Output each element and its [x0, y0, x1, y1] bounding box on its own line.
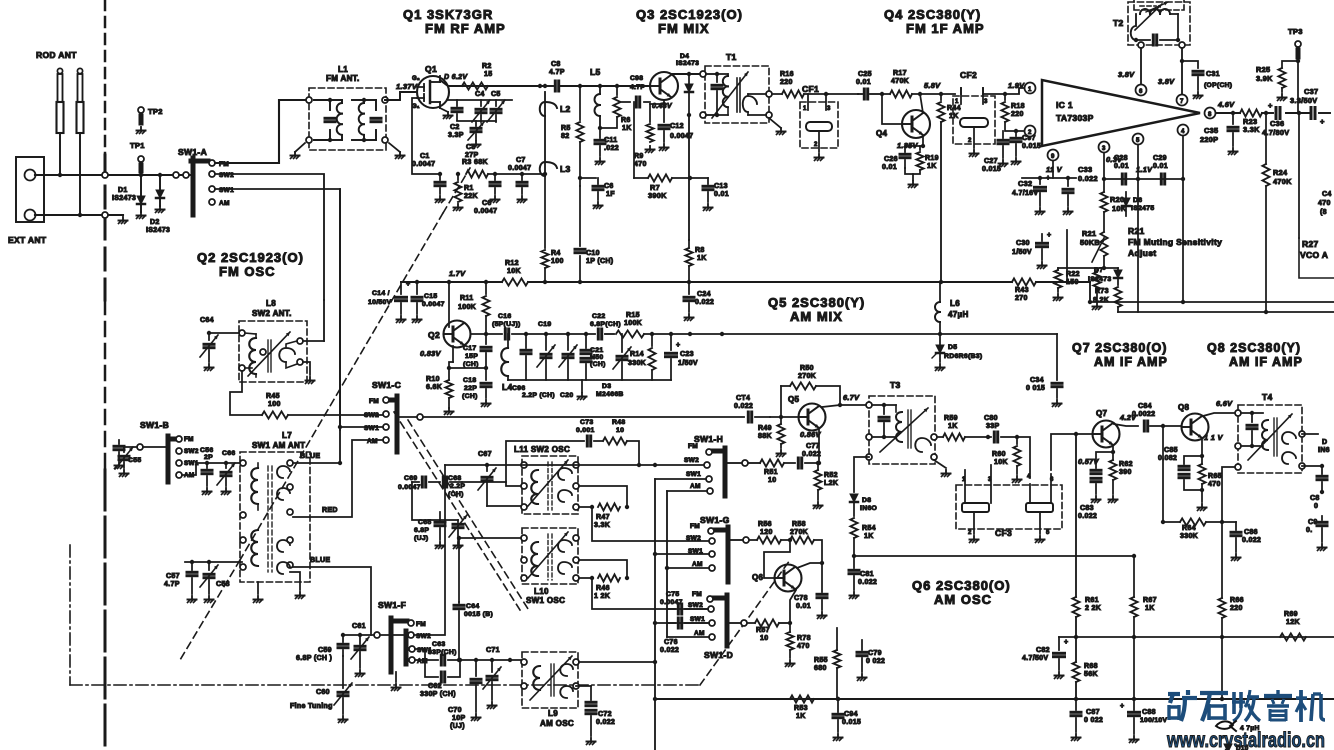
- resistor R66 220: [1218, 522, 1225, 699]
- node C59 junction: [341, 633, 362, 637]
- capacitor C14 10/50V: [396, 281, 411, 323]
- resistor R7 390K: [634, 174, 692, 181]
- svg-text:Q5 2SC380(Y): Q5 2SC380(Y): [768, 295, 865, 310]
- label C62 330P (CH): [420, 683, 456, 698]
- pin 3: [1099, 142, 1110, 153]
- resistor R46 1.2K: [579, 560, 629, 582]
- label ROD ANT: [36, 50, 77, 60]
- capacitor C59 6.8P(CH): [338, 635, 369, 677]
- label C73 0.001: [576, 419, 595, 434]
- label R24 470K: [1273, 168, 1292, 186]
- svg-text:Q3 2SC1923(O): Q3 2SC1923(O): [636, 7, 743, 22]
- svg-text:D10: D10: [1236, 745, 1249, 750]
- label C76 0.022: [660, 639, 679, 654]
- label 1.9V: [1008, 81, 1025, 90]
- svg-text:IC 1: IC 1: [1056, 100, 1073, 110]
- label C65 6.8P(UJ): [414, 519, 431, 542]
- svg-text:C75: C75: [666, 591, 679, 598]
- label SW1-A: [178, 147, 207, 157]
- svg-text:1.1V: 1.1V: [1136, 165, 1153, 174]
- svg-text:8.2K: 8.2K: [1093, 297, 1110, 304]
- resistor R68 56K: [1072, 662, 1079, 682]
- capacitor right edge C89: [1317, 466, 1327, 494]
- svg-text:R8: R8: [695, 247, 705, 254]
- label CF3: [995, 528, 1012, 538]
- connector SW1-D out: [741, 620, 747, 626]
- node CF2 out: [1003, 92, 1007, 96]
- capacitor C20 trimmer: [559, 334, 577, 380]
- wire long vertical x655: [653, 479, 657, 750]
- capacitor C79 0.022: [857, 640, 867, 681]
- svg-text:L7: L7: [282, 431, 292, 440]
- svg-text:R50: R50: [800, 365, 814, 372]
- svg-text:T2: T2: [1113, 18, 1124, 28]
- label C14 10/50V: [368, 290, 392, 306]
- wire Q7 collector: [1114, 424, 1138, 426]
- node x655 sw1d: [653, 621, 657, 625]
- diode D8 IN60: [850, 457, 869, 516]
- label R66 220: [1230, 597, 1244, 612]
- resistor R14 330K: [648, 334, 655, 380]
- svg-text:100K: 100K: [458, 304, 477, 311]
- capacitor C30 1/50V: [1037, 232, 1052, 269]
- svg-text:0.83V: 0.83V: [420, 349, 441, 358]
- wire L7 RED mid: [293, 440, 383, 517]
- svg-text:FM: FM: [688, 443, 698, 450]
- capacitor C6 1F: [580, 178, 603, 209]
- label R20 10K: [1110, 195, 1127, 213]
- svg-text:Q7 2SC380(O): Q7 2SC380(O): [1072, 341, 1167, 355]
- svg-text:C78: C78: [794, 595, 808, 602]
- label SW1-G SW2: [686, 535, 701, 542]
- svg-text:T4: T4: [1262, 392, 1273, 402]
- diode D6 IS2475: [1122, 192, 1130, 216]
- node x667 sw1g: [665, 566, 669, 570]
- label R59 1K: [944, 415, 958, 430]
- svg-text:R54: R54: [862, 525, 876, 532]
- svg-text:3.3P: 3.3P: [448, 132, 464, 139]
- label C71: [486, 647, 500, 654]
- label C17 15P (CH): [463, 345, 479, 368]
- wire Q2 collector: [471, 332, 488, 336]
- label R67 1K: [1143, 597, 1157, 612]
- capacitor C26: [900, 137, 925, 168]
- pin 5: [1133, 134, 1144, 145]
- wire L2-L3 column: [544, 92, 546, 174]
- label C2 3.3P: [448, 124, 464, 139]
- svg-text:1.7V: 1.7V: [449, 269, 466, 278]
- label R60 10K: [992, 451, 1008, 466]
- label SW1-B: [140, 420, 169, 430]
- svg-text:33P: 33P: [986, 423, 999, 430]
- transistor Q4 2SC380: [902, 110, 930, 138]
- antenna rod 1: [57, 68, 64, 175]
- resistor R1 22K: [454, 174, 463, 211]
- svg-text:R78: R78: [797, 635, 811, 642]
- svg-text:R57: R57: [756, 627, 770, 634]
- svg-text:10: 10: [768, 477, 776, 484]
- label C87 0.022: [1084, 709, 1103, 724]
- capacitor C10 1P(CH): [575, 249, 585, 252]
- label D1 IS2473: [112, 187, 136, 202]
- svg-text:100/10V: 100/10V: [1140, 717, 1167, 724]
- label 4.2V: [1119, 413, 1137, 422]
- capacitor C86 0.022: [1222, 522, 1241, 561]
- svg-text:50KB: 50KB: [1080, 238, 1100, 247]
- switch SW1-A: [191, 158, 215, 215]
- capacitor C24 0.022: [684, 282, 694, 321]
- svg-text:4.7/50V: 4.7/50V: [1022, 655, 1048, 662]
- label T3: [890, 380, 901, 390]
- wire ext-ant lower: [35, 214, 123, 216]
- svg-text:220: 220: [780, 79, 793, 86]
- svg-text:10: 10: [616, 427, 624, 434]
- svg-text:SW1: SW1: [686, 471, 701, 478]
- capacitor C69 C68 pair: [412, 477, 462, 487]
- ground L7 bottom right: [290, 572, 305, 599]
- svg-text:C11: C11: [604, 137, 617, 144]
- label TP1: [130, 141, 145, 150]
- svg-text:FM: FM: [692, 591, 702, 598]
- label R9 470: [634, 153, 647, 168]
- transformer T3: [866, 396, 937, 464]
- svg-text:R3: R3: [462, 159, 472, 166]
- label Q6 header: [912, 578, 1011, 607]
- svg-text:0.01: 0.01: [796, 603, 811, 610]
- transformer L7: [240, 452, 310, 582]
- wire tank bus: [448, 99, 512, 101]
- svg-text:C12: C12: [670, 123, 684, 130]
- svg-text:IN6O: IN6O: [860, 505, 878, 512]
- label R3 68K: [462, 159, 488, 166]
- label SW1-H SW2: [684, 457, 699, 464]
- wire SW1-B bar in: [143, 446, 166, 448]
- transformer L8: [239, 321, 307, 382]
- wire Q3 collector top: [671, 73, 703, 75]
- svg-text:VCO A: VCO A: [1300, 250, 1328, 260]
- svg-text:G₁: G₁: [412, 104, 420, 110]
- svg-text:C19: C19: [538, 321, 551, 328]
- label R65 470: [1208, 473, 1222, 488]
- svg-text:1P (CH): 1P (CH): [586, 258, 613, 265]
- svg-text:C59: C59: [318, 647, 332, 654]
- svg-text:Q1: Q1: [425, 64, 437, 74]
- label C57 4.7P: [164, 573, 180, 588]
- wire 1.7V bus b: [528, 281, 1012, 283]
- wire R47 to SW1-G: [592, 507, 709, 541]
- label C19: [538, 321, 551, 328]
- capacitor C37 3.3/50V: [1311, 108, 1325, 127]
- wire Q8 collector: [1203, 413, 1235, 416]
- svg-text:R16: R16: [780, 71, 794, 78]
- label C78 0.01: [794, 595, 811, 610]
- svg-text:FM ANT.: FM ANT.: [326, 74, 360, 83]
- capacitor C8: [545, 81, 559, 91]
- svg-text:C13: C13: [714, 183, 728, 190]
- svg-text:0.022: 0.022: [1242, 537, 1261, 544]
- connector SW1-B left: [137, 444, 143, 450]
- wire bus y302: [1090, 301, 1334, 303]
- label G1: [412, 104, 420, 110]
- capacitor C5 trimmer: [487, 100, 505, 122]
- label L2: [560, 104, 571, 114]
- label R17 470K: [891, 70, 910, 85]
- wire SW2 contact right: [414, 465, 445, 635]
- label C94 0.015: [842, 711, 861, 726]
- svg-text:1K: 1K: [949, 113, 959, 120]
- wire bottom bus y699: [655, 698, 1334, 700]
- svg-text:L2: L2: [560, 104, 571, 114]
- label C16 (5P(UJ)): [492, 313, 521, 328]
- svg-text:T1: T1: [726, 52, 737, 62]
- resistor R78 470: [786, 623, 795, 667]
- svg-text:1: 1: [1028, 87, 1032, 93]
- svg-text:C2: C2: [450, 124, 460, 131]
- label C36 4.7/80V: [1262, 119, 1289, 137]
- label D2 IS2473: [146, 219, 170, 234]
- svg-text:C84: C84: [1138, 403, 1152, 410]
- svg-text:SW1: SW1: [219, 187, 234, 194]
- label SW1-B SW1: [184, 460, 199, 467]
- capacitor C1: [435, 174, 445, 203]
- capacitor C7: [517, 174, 527, 203]
- label C1 0.0047: [412, 153, 435, 168]
- svg-text:C29: C29: [1153, 155, 1167, 162]
- label C64: [200, 317, 214, 324]
- label C4: [475, 91, 485, 98]
- label D4 IS2473: [676, 53, 699, 67]
- node R57 out: [788, 621, 792, 625]
- label 1.7V: [449, 269, 466, 278]
- svg-text:C23: C23: [680, 351, 694, 358]
- svg-text:0.022: 0.022: [858, 579, 877, 586]
- wire x1067 up: [1066, 230, 1068, 282]
- svg-text:+: +: [1120, 703, 1124, 710]
- node Q5 coll dot: [838, 403, 842, 407]
- wire T4 to R64 node: [1222, 467, 1238, 522]
- svg-text:R67: R67: [1143, 597, 1157, 604]
- resistor R61 2.2K: [1072, 597, 1079, 617]
- svg-text:470: 470: [1318, 200, 1331, 207]
- svg-text:3.3/50V: 3.3/50V: [1290, 96, 1317, 105]
- wire Q7 emitter: [1112, 445, 1114, 452]
- node C36 junction: [1264, 111, 1268, 115]
- label C8 4.7P: [549, 61, 565, 76]
- svg-text:0.0047: 0.0047: [398, 484, 421, 491]
- label C80 33P: [984, 415, 999, 430]
- wire AM row to L9: [460, 659, 525, 661]
- label CT4 0.022: [734, 395, 753, 410]
- label SW1-G FM: [690, 523, 700, 530]
- capacitor C15 0.0047: [412, 282, 422, 323]
- wire R21 to D7: [1104, 267, 1118, 269]
- svg-text:IS2473: IS2473: [112, 195, 136, 202]
- label C64 0015(B): [464, 603, 493, 618]
- capacitor C17 15P(CH): [481, 334, 491, 370]
- svg-text:L8: L8: [266, 299, 276, 308]
- wire L7 BLUE top: [293, 462, 340, 464]
- resistor R24 470K: [1262, 113, 1269, 314]
- label C77 0.022: [802, 443, 821, 458]
- label C79 0.022: [866, 650, 885, 665]
- transformer T1: [700, 66, 772, 123]
- svg-text:Q5: Q5: [788, 395, 800, 404]
- svg-text:4: 4: [1027, 474, 1031, 480]
- label C89: [1310, 495, 1320, 510]
- capacitor C67 trimmer: [478, 465, 496, 506]
- capacitor C87 0.022: [1071, 699, 1081, 741]
- svg-text:FM 1F AMP: FM 1F AMP: [906, 21, 985, 36]
- svg-text:C9: C9: [1308, 519, 1318, 526]
- svg-text:1K: 1K: [1145, 605, 1155, 612]
- transformer L1: [306, 88, 388, 150]
- svg-text:C30: C30: [1016, 240, 1030, 247]
- label R50 270K: [798, 365, 817, 380]
- svg-text:6.8P: 6.8P: [414, 527, 429, 534]
- wire SW1-H AM left: [667, 490, 707, 492]
- transistor Q6 2SC380: [775, 565, 802, 592]
- wire L8 right top: [303, 340, 324, 342]
- svg-text:68K: 68K: [474, 159, 488, 166]
- wire dashed diagonal shield right: [394, 412, 790, 685]
- switch SW1-H: [704, 448, 725, 496]
- pin T2 right: [1179, 42, 1185, 48]
- wire AM mix bus b: [605, 333, 614, 335]
- label SW1-D: [704, 650, 733, 660]
- svg-text:C83: C83: [1080, 505, 1094, 512]
- capacitor C19 trimmer: [537, 334, 555, 380]
- node rod2 junction: [78, 213, 82, 217]
- svg-text:(CH): (CH): [462, 393, 478, 400]
- svg-text:C16: C16: [498, 313, 511, 320]
- label R21 FM Muting: [1128, 226, 1222, 258]
- svg-text:SW1-B: SW1-B: [140, 420, 169, 430]
- resistor R51 10: [760, 459, 784, 466]
- capacitor right C90: [1317, 516, 1327, 551]
- wire SW1-G out: [731, 539, 742, 541]
- label C20: [560, 392, 573, 399]
- svg-text:R58: R58: [792, 521, 806, 528]
- wire CF2 pins: [961, 88, 1005, 94]
- svg-text:6: 6: [1139, 89, 1143, 95]
- svg-text:R68: R68: [1084, 663, 1098, 670]
- label C61: [352, 623, 366, 630]
- capacitor CT4 0.022: [744, 412, 770, 422]
- svg-text:AM IF AMP: AM IF AMP: [1229, 355, 1303, 369]
- svg-text:C7: C7: [516, 157, 526, 164]
- resistor R54 1K: [850, 518, 857, 558]
- label 0.57V: [1078, 457, 1099, 466]
- connector SW1-C out: [417, 414, 423, 420]
- svg-text:+: +: [676, 342, 680, 349]
- wire Q6 collector: [797, 563, 822, 568]
- capacitor C4 trimmer: [472, 100, 490, 122]
- svg-text:0.022: 0.022: [695, 299, 714, 306]
- svg-text:C6: C6: [482, 200, 492, 207]
- svg-text:R43: R43: [1015, 287, 1029, 294]
- label R73 8.2K: [1093, 288, 1110, 304]
- capacitor C23 1/50V: [666, 334, 681, 380]
- capacitor C31: [1182, 61, 1203, 99]
- label C15 0.0047: [422, 293, 445, 308]
- capacitor C73 0.001: [587, 436, 590, 446]
- node C57 dots: [190, 560, 211, 564]
- label C13 0.01: [714, 183, 729, 198]
- svg-text:0 015: 0 015: [1026, 385, 1045, 392]
- svg-text:R25: R25: [1256, 65, 1270, 74]
- svg-text:C36: C36: [1270, 119, 1284, 128]
- wire pin5 down: [1137, 145, 1139, 312]
- node right edge: [1320, 464, 1324, 468]
- svg-text:C94: C94: [844, 711, 858, 718]
- node C7 junction: [520, 172, 524, 176]
- svg-text:C15: C15: [424, 293, 437, 300]
- label Q8 header: [1207, 341, 1303, 369]
- svg-text:3.3K: 3.3K: [1243, 125, 1260, 134]
- svg-text:0.0022: 0.0022: [1132, 411, 1155, 418]
- svg-text:3.3K: 3.3K: [594, 522, 611, 529]
- diode D5 zener: [932, 334, 948, 371]
- label R12 10K: [505, 260, 521, 275]
- svg-text:C56: C56: [200, 447, 213, 454]
- resistor R4 100: [541, 172, 548, 282]
- label D 6.2V: [444, 74, 468, 81]
- svg-text:+: +: [1064, 639, 1068, 646]
- node Q5 emitter join: [817, 461, 821, 465]
- pin T2 left: [1138, 42, 1144, 48]
- svg-text:2.2P (CH): 2.2P (CH): [522, 392, 555, 399]
- wire L10 feed: [457, 536, 521, 602]
- label C25 0.01: [856, 71, 872, 86]
- EXT ANT terminal box: [16, 157, 44, 222]
- svg-text:R60: R60: [992, 451, 1006, 458]
- label C69 0.0047: [398, 475, 421, 491]
- svg-text:C66: C66: [222, 450, 235, 457]
- svg-text:C18: C18: [463, 377, 476, 384]
- svg-text:88K: 88K: [758, 433, 772, 440]
- label R45 100: [266, 393, 281, 408]
- label R27 VCO: [1300, 239, 1328, 260]
- label R21 50KB: [1080, 229, 1100, 247]
- svg-text:D1: D1: [118, 187, 128, 194]
- svg-text:Fine Tuning: Fine Tuning: [290, 703, 333, 710]
- svg-text:L2K: L2K: [824, 480, 839, 487]
- resistor R45 100: [262, 411, 288, 418]
- node crossover circles: [102, 172, 108, 218]
- svg-text:+: +: [1047, 232, 1051, 239]
- label R2 15: [482, 63, 492, 78]
- label C55: [128, 457, 141, 464]
- switch SW1-B: [168, 436, 182, 482]
- label BLUE bottom: [310, 557, 330, 564]
- resistor R48 10: [594, 437, 639, 465]
- label D3 M2466B: [596, 383, 624, 398]
- wire AM mix bus c: [644, 333, 1057, 335]
- transistor Q1 3SK73GR: [417, 76, 449, 108]
- wire SW1 col to SW1-C: [340, 426, 383, 428]
- label SW1-F AM: [417, 658, 428, 665]
- wire R56 node to Q6 base: [764, 540, 790, 578]
- svg-text:SW2: SW2: [184, 448, 199, 455]
- svg-text:82: 82: [561, 133, 569, 140]
- svg-text:SW2: SW2: [684, 457, 699, 464]
- resistor R43 270: [1012, 278, 1036, 285]
- svg-text:BLUE: BLUE: [300, 453, 320, 460]
- label L3: [560, 164, 571, 174]
- node C11 top: [598, 126, 602, 130]
- svg-text:R19: R19: [925, 155, 939, 162]
- label SW1-C SW2: [364, 412, 379, 419]
